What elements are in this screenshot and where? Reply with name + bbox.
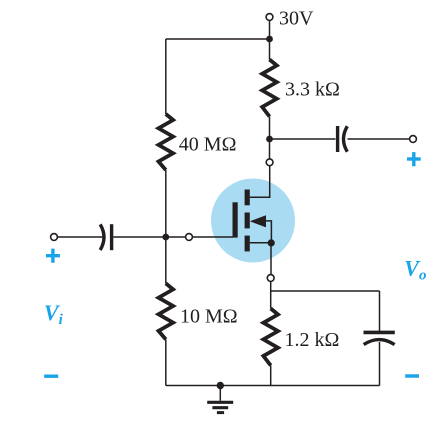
node: drain output junction dot <box>266 136 273 143</box>
label: output plus sign <box>407 152 421 166</box>
source lead wire <box>250 242 272 244</box>
wire: left branch upper <box>165 39 167 114</box>
terminal: drain open circle <box>266 159 273 166</box>
resistor RS 1.2 kΩ <box>263 309 278 366</box>
channel segment drain <box>245 190 250 206</box>
wire: gate lead <box>192 236 233 238</box>
wire: supply stub <box>269 21 271 39</box>
node: ground junction dot <box>217 382 224 389</box>
label: output minus sign <box>405 374 419 377</box>
body lead wire <box>263 221 271 243</box>
capacitor CS source bypass <box>364 332 395 344</box>
wire: source node rail <box>271 290 380 292</box>
terminal: input open circle <box>51 234 58 241</box>
resistor R2 10 MΩ <box>159 283 174 339</box>
body arrow <box>250 215 266 227</box>
wire: drain branch below resistor <box>269 117 271 140</box>
resistor RD 3.3 kΩ <box>262 60 277 117</box>
svg-text:40 MΩ: 40 MΩ <box>179 134 237 156</box>
svg-text:30V: 30V <box>279 8 314 30</box>
wire: above RS <box>270 291 272 309</box>
wire: drain stub to drain terminal <box>269 139 271 159</box>
wire: source stub to terminal <box>270 243 272 275</box>
node: supply junction dot <box>266 36 273 43</box>
terminal: source open circle <box>267 275 274 282</box>
wire: drain branch top <box>269 39 271 60</box>
MOSFET highlight circle <box>211 179 295 263</box>
node: source body junction dot <box>268 239 275 246</box>
label: input plus sign <box>46 249 60 263</box>
capacitor C1 input coupling <box>100 224 111 250</box>
ground <box>207 386 233 413</box>
wire: input lead left <box>57 236 103 238</box>
svg-text:10 MΩ: 10 MΩ <box>180 305 238 327</box>
wire: source branch to node <box>270 281 272 291</box>
resistor R1 40 MΩ <box>159 114 174 170</box>
wire: output wire right of capacitor <box>348 138 410 140</box>
svg-text:3.3 kΩ: 3.3 kΩ <box>285 79 340 101</box>
terminal: output open circle <box>410 136 417 143</box>
channel segment body <box>245 213 250 229</box>
terminal: gate open circle <box>186 234 193 241</box>
wire: bottom rail <box>166 385 380 387</box>
channel segment source <box>245 236 250 252</box>
gate bar <box>233 202 238 237</box>
terminal: 30V supply open circle <box>266 14 273 21</box>
transistor Q1 E-MOSFET <box>235 190 271 252</box>
svg-text:Vi: Vi <box>44 300 64 328</box>
wire: top rail from left branch to drain branch <box>166 38 270 40</box>
svg-text:Vo: Vo <box>404 256 426 284</box>
capacitor C2 output coupling <box>338 126 348 152</box>
label: input minus sign <box>44 375 58 378</box>
wire: drain lead into MOSFET <box>250 166 270 197</box>
wire: left branch middle <box>165 170 167 283</box>
wire: bypass branch upper <box>379 291 381 331</box>
wire: input to divider junction <box>113 236 185 238</box>
wire: below RS <box>270 365 272 385</box>
svg-text:1.2 kΩ: 1.2 kΩ <box>285 329 340 351</box>
wire: output wire left of capacitor <box>270 138 336 140</box>
wire: bypass branch lower <box>379 342 381 386</box>
node: gate divider junction dot <box>162 234 169 241</box>
wire: left branch lower <box>165 339 167 385</box>
